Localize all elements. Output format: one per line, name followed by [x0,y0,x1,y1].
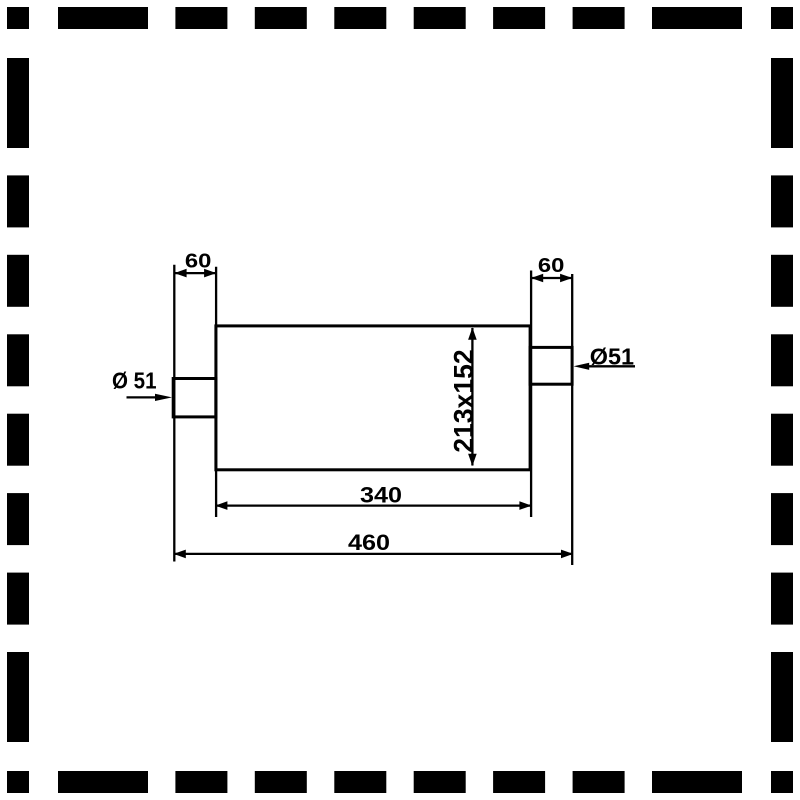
dimension 60 left: line [175,272,216,274]
outlet pipe stub (right) [530,347,572,384]
inlet pipe stub (left) [173,379,216,417]
svg-text:460: 460 [348,530,390,555]
svg-text:340: 340 [360,482,402,507]
svg-text:213x152: 213x152 [448,349,479,453]
dimension 60 left: left arrowhead [174,269,186,278]
svg-text:Ø 51: Ø 51 [112,367,157,393]
dimension 213x152: top arrowhead [468,328,477,340]
dimension 340: line [216,504,531,506]
dimension 213x152: bottom arrowhead [468,454,477,466]
label Ø51 right: arrowhead [574,363,590,370]
label Ø51 left: arrowhead [155,394,172,401]
dimension 60 right: left arrowhead [531,274,543,283]
dimension 60 right: right arrowhead [560,274,572,283]
dimension 213x152 vertical: line [471,328,473,466]
dimension 460: left arrowhead [174,550,186,559]
dimension 340: right arrowhead [519,501,531,510]
extension line at body left (60 left / 340 left) [215,267,217,517]
dimension 460: right arrowhead [561,550,573,559]
extension line right stub outer (60 right / 460 right) [571,274,573,565]
dimension 60 left: right arrowhead [204,269,216,278]
extension line at body right (60 right / 340 right) [530,271,532,518]
svg-text:60: 60 [185,249,212,272]
label Ø51 right: leader line [589,365,636,367]
dimension 340: left arrowhead [215,501,227,510]
svg-text:60: 60 [538,254,565,277]
dimension 60 right: line [532,277,572,279]
extension line left (60 left / 460 left) [173,265,175,562]
muffler body outline [216,326,530,470]
dimension 460: line [174,553,572,555]
label Ø51 left: leader line [127,396,158,398]
